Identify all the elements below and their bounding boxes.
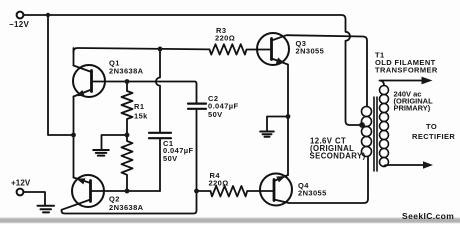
svg-text:2N3055: 2N3055 bbox=[296, 47, 325, 56]
svg-text:2N3055: 2N3055 bbox=[298, 189, 327, 198]
svg-text:TRANSFORMER: TRANSFORMER bbox=[375, 65, 438, 74]
svg-text:SeekIC.com: SeekIC.com bbox=[402, 211, 454, 221]
svg-text:2N3638A: 2N3638A bbox=[109, 203, 144, 212]
svg-text:SECONDARY): SECONDARY) bbox=[310, 152, 366, 161]
svg-text:−12V: −12V bbox=[9, 20, 29, 29]
svg-text:2N3638A: 2N3638A bbox=[109, 67, 144, 76]
svg-text:R1: R1 bbox=[134, 102, 144, 111]
svg-text:220Ω: 220Ω bbox=[215, 33, 235, 42]
svg-text:PRIMARY): PRIMARY) bbox=[394, 104, 431, 113]
svg-text:+12V: +12V bbox=[11, 179, 31, 188]
svg-text:TO: TO bbox=[426, 122, 437, 131]
svg-text:220Ω: 220Ω bbox=[209, 178, 229, 187]
svg-text:RECTIFIER: RECTIFIER bbox=[412, 132, 455, 141]
svg-text:50V: 50V bbox=[163, 154, 178, 163]
svg-text:50V: 50V bbox=[208, 110, 223, 119]
svg-text:15k: 15k bbox=[134, 112, 148, 121]
